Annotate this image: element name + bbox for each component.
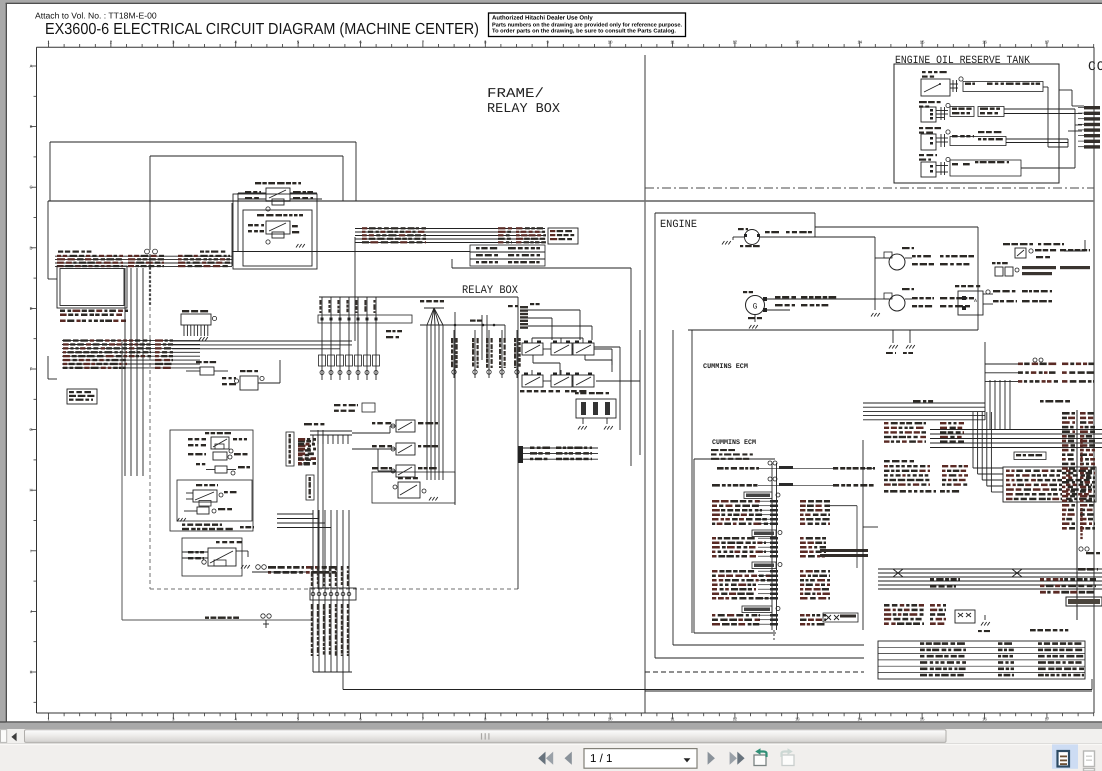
section divider vertical center bbox=[644, 55, 646, 713]
header small text bbox=[35, 11, 157, 21]
relay K2 ENG OIL FULL OIL RELAY 2 bbox=[248, 214, 303, 244]
ecm pin group 2 bbox=[712, 477, 874, 487]
svg-text:RELAY BOX: RELAY BOX bbox=[487, 102, 560, 117]
svg-text:A: A bbox=[30, 64, 33, 69]
bowtie junction 2 bbox=[1012, 569, 1022, 577]
ground starter bbox=[871, 313, 880, 317]
wire bundle vertical left bbox=[125, 268, 143, 476]
wire starter feed bbox=[815, 237, 875, 310]
right assembly labels RA1 bbox=[985, 358, 1094, 383]
tank routing wires bbox=[1048, 87, 1082, 168]
diode D1 bbox=[188, 452, 248, 460]
left margin wire bbox=[48, 201, 57, 279]
bus B1 wires bbox=[55, 256, 232, 266]
ecm pin rows group3 bbox=[712, 570, 830, 600]
reserve tank heading bbox=[895, 55, 1030, 67]
junction bus horizontal bbox=[420, 320, 505, 327]
copper bar label bbox=[420, 300, 444, 302]
bottom group left labels bbox=[884, 604, 975, 625]
svg-text:11: 11 bbox=[670, 40, 675, 45]
relay box top wire bbox=[319, 297, 518, 589]
svg-text:5: 5 bbox=[297, 717, 300, 722]
svg-text:3: 3 bbox=[172, 717, 175, 722]
relay box heading bbox=[462, 284, 518, 297]
svg-text:J: J bbox=[30, 609, 32, 614]
svg-text:8: 8 bbox=[484, 717, 487, 722]
svg-text:12: 12 bbox=[733, 40, 738, 45]
svg-text:15: 15 bbox=[920, 717, 925, 722]
svg-text:10: 10 bbox=[608, 717, 613, 722]
toolbar background bbox=[0, 743, 1102, 771]
alternator M1 bbox=[733, 227, 815, 247]
title text bbox=[45, 21, 479, 38]
wires into bundle bbox=[277, 510, 331, 528]
svg-text:CUMMINS ECM: CUMMINS ECM bbox=[703, 363, 748, 371]
frame relay box heading bbox=[487, 87, 560, 117]
relay K5 mid bbox=[393, 477, 438, 501]
svg-text:A: A bbox=[974, 298, 977, 304]
svg-text:ENGINE: ENGINE bbox=[660, 219, 697, 231]
label box eng ecu bbox=[1066, 597, 1102, 606]
right block fuel group bbox=[884, 460, 968, 493]
relay K1 ENG OIL FULL OIL RELAY bbox=[245, 182, 313, 211]
dash-dot boundary engine top bbox=[645, 187, 1094, 189]
legend note box bbox=[67, 389, 97, 404]
svg-text:15: 15 bbox=[920, 40, 925, 45]
svg-text:17: 17 bbox=[1045, 40, 1050, 45]
scrollbar corner box bbox=[1, 730, 7, 743]
bus B2 labels cluster1 bbox=[63, 339, 127, 369]
bus B3 labels right bbox=[516, 227, 546, 243]
svg-text:2: 2 bbox=[110, 40, 113, 45]
viewer left frame bar bbox=[0, 0, 7, 729]
eng oil level switch SW1 bbox=[955, 285, 1052, 315]
svg-text:1: 1 bbox=[47, 40, 50, 45]
wire relay K1 left bbox=[238, 193, 266, 252]
svg-text:1: 1 bbox=[47, 717, 50, 722]
svg-text:To order parts on the drawing,: To order parts on the drawing, be sure t… bbox=[492, 28, 676, 35]
svg-text:I: I bbox=[30, 548, 31, 553]
svg-text:7: 7 bbox=[422, 717, 425, 722]
horizontal scrollbar track bbox=[0, 729, 1102, 743]
svg-text:8: 8 bbox=[484, 40, 487, 45]
crossing bundle vertical bbox=[973, 412, 1003, 492]
connector X2 bbox=[505, 303, 592, 340]
fusible link F1 bbox=[186, 361, 228, 375]
wire long vertical v455 bbox=[455, 312, 487, 505]
svg-text:13: 13 bbox=[795, 717, 800, 722]
ecm group header 2 bbox=[752, 530, 782, 537]
svg-text:C: C bbox=[29, 185, 32, 190]
svg-text:9: 9 bbox=[547, 40, 550, 45]
relay bank RB1 bbox=[318, 297, 412, 380]
svg-text:G: G bbox=[753, 303, 758, 312]
bowtie junction 1 bbox=[893, 569, 903, 577]
svg-text:14: 14 bbox=[857, 40, 862, 45]
battery relay K7 bbox=[188, 432, 247, 453]
starter motor SM2 bbox=[875, 288, 974, 311]
ecm module label bbox=[711, 439, 756, 460]
junction pins cluster bbox=[252, 565, 336, 574]
fusible link labels bbox=[334, 403, 375, 412]
bus B3 labels mid bbox=[498, 227, 512, 243]
toolbar last page button bbox=[730, 752, 745, 765]
toolbar next view button disabled bbox=[782, 748, 795, 765]
bus B1 labels cluster3 bbox=[178, 251, 230, 268]
ecm right boundary bbox=[863, 440, 878, 630]
ground relay fuse box left bbox=[578, 426, 587, 430]
svg-text:Parts numbers on the drawing a: Parts numbers on the drawing are provide… bbox=[492, 21, 682, 28]
toolbar next page button bbox=[708, 752, 715, 765]
connector box CN1 double border bbox=[57, 266, 127, 308]
ground relay fuse box right bbox=[604, 426, 613, 430]
svg-text:EX3600-6 ELECTRICAL CIRCUIT DI: EX3600-6 ELECTRICAL CIRCUIT DIAGRAM (MAC… bbox=[45, 21, 479, 38]
ground horn relay bbox=[177, 518, 186, 522]
right block long wires bbox=[930, 430, 1102, 448]
relay K5 enclosure bbox=[372, 472, 455, 503]
right edge stack B bbox=[1080, 412, 1095, 530]
svg-text:FRAME/: FRAME/ bbox=[487, 87, 544, 102]
junction circles bus B1 bbox=[145, 249, 158, 254]
svg-text:2: 2 bbox=[110, 717, 113, 722]
wire long bottom gray bbox=[122, 614, 311, 628]
svg-text:F: F bbox=[30, 367, 33, 372]
fuse F3 bbox=[196, 463, 250, 475]
ecm group header 4 bbox=[742, 606, 780, 613]
viewer top frame bar bbox=[0, 0, 1102, 4]
copper bar CB1 bbox=[424, 308, 444, 480]
bus B2 labels cluster2 bbox=[129, 339, 151, 357]
wire bundle right of stack bbox=[318, 430, 323, 589]
latch relay enclosure bbox=[182, 538, 242, 576]
engine bottom boundary bbox=[645, 690, 1092, 692]
svg-text:G: G bbox=[29, 427, 32, 432]
copper bar 2 bbox=[304, 423, 352, 444]
svg-text:16: 16 bbox=[982, 717, 987, 722]
cummins ecm section label bbox=[703, 363, 748, 371]
horn relay K6 bbox=[186, 484, 237, 506]
latch relay K8 bbox=[182, 541, 250, 569]
chain dashed wire x150 bbox=[149, 254, 151, 589]
vertical label box V1 bbox=[286, 432, 294, 466]
ecm outer box bbox=[692, 330, 776, 633]
svg-text:E: E bbox=[30, 306, 33, 311]
stacked rows table bbox=[470, 245, 545, 266]
ecm group header 1 bbox=[744, 492, 780, 499]
svg-text:9: 9 bbox=[547, 717, 550, 722]
wire gray main left bbox=[121, 340, 123, 620]
engine heading bbox=[660, 219, 697, 231]
relay fuse box B bbox=[575, 392, 616, 424]
oil temp sensor S3 bbox=[919, 127, 1068, 150]
toolbar previous page button bbox=[565, 752, 572, 765]
reserve tank box bbox=[894, 64, 1059, 183]
starter motor SM1 bbox=[875, 247, 974, 270]
svg-text:6: 6 bbox=[359, 40, 362, 45]
generator G1 bbox=[743, 291, 875, 322]
svg-text:6: 6 bbox=[359, 717, 362, 722]
right block boxed header bbox=[1014, 452, 1046, 460]
svg-text:CO: CO bbox=[1088, 59, 1102, 74]
svg-text:12: 12 bbox=[733, 717, 738, 722]
controller heading clipped bbox=[1088, 59, 1102, 74]
horizontal bus right bbox=[878, 569, 1102, 589]
svg-text:7: 7 bbox=[422, 40, 425, 45]
svg-text:Attach to Vol. No. : TT18M-E-0: Attach to Vol. No. : TT18M-E-00 bbox=[35, 11, 157, 21]
engine section outline bbox=[655, 213, 978, 658]
svg-text:13: 13 bbox=[795, 40, 800, 45]
fuel pump motors bbox=[992, 262, 1090, 276]
bus B2 wires bbox=[62, 341, 352, 368]
svg-text:1 / 1: 1 / 1 bbox=[590, 753, 612, 765]
wire tank to connector bbox=[1059, 90, 1084, 106]
ecm pin column bbox=[772, 463, 777, 640]
svg-text:RELAY BOX: RELAY BOX bbox=[462, 284, 518, 297]
bottom long wire to right bbox=[343, 672, 1092, 690]
section boundary horizontal gray bbox=[48, 200, 1094, 202]
horn relay enclosure bbox=[170, 430, 253, 531]
wire right column link bbox=[1064, 240, 1085, 251]
ecm pin group 1 bbox=[717, 461, 875, 470]
wire to relay container bbox=[232, 252, 631, 467]
ecm group header 3 bbox=[752, 562, 782, 569]
svg-text:14: 14 bbox=[857, 717, 862, 722]
frame section outline bbox=[50, 142, 356, 201]
right assembly upper wires bbox=[985, 342, 1010, 430]
svg-text:CUMMINS ECM: CUMMINS ECM bbox=[712, 439, 756, 447]
oil level switch S2 bbox=[919, 101, 1075, 122]
wire copper bar to isolators bbox=[352, 426, 396, 471]
bottom bus rows right bbox=[518, 446, 598, 463]
wire stub vertical x232 bbox=[231, 203, 233, 266]
relay grid RG1 bbox=[520, 338, 612, 392]
inner frame outline bbox=[150, 156, 343, 250]
right edge stack A bbox=[1062, 412, 1075, 530]
bus B2 enclosure wire bbox=[48, 356, 57, 379]
fuel sensor A1 bbox=[1003, 243, 1090, 258]
relay K1 enclosure bbox=[233, 194, 317, 269]
svg-text:11: 11 bbox=[670, 717, 675, 722]
viewer bottom page edge bbox=[0, 721, 1102, 729]
toolbar single page mode active bbox=[1052, 744, 1078, 768]
summary table ST1 bbox=[878, 629, 1085, 679]
relay K4 with pins bbox=[222, 370, 264, 390]
ground generator bbox=[749, 325, 758, 329]
vertical label box V2 bbox=[306, 475, 314, 500]
svg-text:3: 3 bbox=[172, 40, 175, 45]
relay box dashed boundary bottom bbox=[150, 588, 518, 590]
engine nested bottoms bbox=[645, 330, 864, 672]
connector stack right top bbox=[1078, 106, 1100, 149]
fuse F2 horn bbox=[184, 507, 232, 514]
battery isolator bank BI1 bbox=[372, 420, 438, 477]
link wires ecm to right bbox=[863, 403, 985, 420]
right block rows top bbox=[884, 422, 964, 443]
fuse bank FB1 bbox=[451, 330, 521, 378]
label stack LS1 bbox=[298, 438, 316, 465]
ecm pin rows group1 bbox=[712, 500, 857, 568]
note block box bbox=[1003, 467, 1096, 502]
ground relay K2 bbox=[296, 244, 305, 248]
svg-text:K: K bbox=[30, 670, 33, 675]
wire bundle to relays bbox=[258, 360, 280, 383]
dealer notice box bbox=[489, 13, 686, 37]
svg-text:Authorized Hitachi Dealer Use: Authorized Hitachi Dealer Use Only bbox=[492, 15, 593, 22]
ground alternator bbox=[722, 241, 731, 245]
oil level switch S1 bbox=[921, 71, 1048, 96]
svg-text:4: 4 bbox=[235, 40, 238, 45]
scrollbar thumb bbox=[25, 730, 947, 743]
ecm pin rows group4 bbox=[712, 613, 858, 626]
bus B3 labels left bbox=[362, 227, 426, 243]
toolbar previous view button bbox=[754, 748, 767, 765]
bus B1 labels cluster1 bbox=[57, 251, 123, 268]
label bar single bbox=[913, 400, 1070, 403]
copper bar 2 labels bbox=[298, 440, 311, 466]
oil full switch S4 bbox=[919, 154, 1075, 177]
svg-text:5: 5 bbox=[297, 40, 300, 45]
svg-text:4: 4 bbox=[235, 717, 238, 722]
svg-text:17: 17 bbox=[1045, 717, 1050, 722]
right long vertical wire bbox=[1076, 410, 1078, 620]
svg-text:D: D bbox=[29, 245, 32, 250]
top bus B3 wires bbox=[355, 229, 545, 342]
bus B1 labels cluster2 bbox=[128, 255, 164, 267]
toolbar continuous mode inactive bbox=[1084, 751, 1095, 771]
regulator relay K3 bbox=[181, 310, 217, 341]
wire relay K1 right bbox=[290, 193, 322, 199]
svg-text:H: H bbox=[29, 488, 32, 493]
svg-text:16: 16 bbox=[982, 40, 987, 45]
dotted red column bbox=[1079, 438, 1100, 554]
bus B2 labels cluster3 bbox=[155, 339, 173, 369]
horn relay labels bbox=[182, 524, 254, 531]
connector CN1 labels bbox=[60, 310, 128, 323]
toolbar first page button bbox=[538, 752, 553, 765]
toolbar page number combo bbox=[584, 749, 697, 769]
ground bottom right bbox=[978, 615, 990, 632]
svg-text:10: 10 bbox=[608, 40, 613, 45]
scrollbar left arrow button bbox=[11, 733, 16, 742]
bottom connector CN2 bbox=[310, 510, 356, 672]
note box bus B3 bbox=[548, 228, 578, 244]
bus right labels bbox=[930, 568, 1098, 594]
svg-text:B: B bbox=[30, 124, 33, 129]
ecm pin rows group2 bbox=[712, 537, 868, 558]
ground pair engine bbox=[886, 330, 915, 354]
svg-text:ENGINE OIL RESERVE TANK: ENGINE OIL RESERVE TANK bbox=[895, 55, 1030, 67]
relay grid maze wires bbox=[533, 330, 640, 455]
